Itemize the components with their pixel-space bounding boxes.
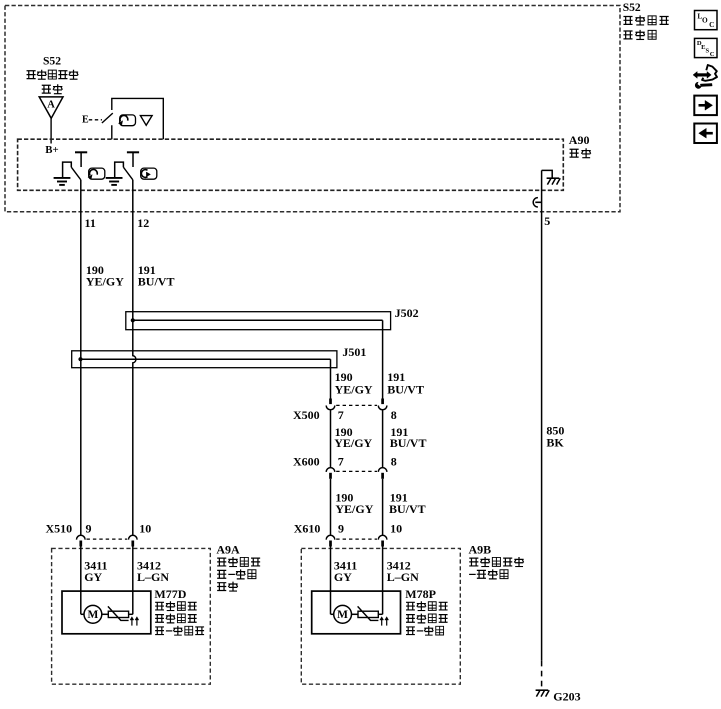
- svg-text:8: 8: [391, 408, 397, 422]
- A90 internal ground connection: [542, 170, 553, 178]
- svg-text:M: M: [87, 609, 98, 621]
- ground G203: [536, 689, 549, 691]
- svg-text:S52: S52: [43, 55, 61, 68]
- svg-text:C: C: [710, 51, 715, 58]
- svg-text:9: 9: [86, 522, 92, 536]
- A90 logic dashed box: [18, 139, 564, 190]
- svg-text:YE/GY: YE/GY: [334, 436, 372, 450]
- svg-text:5: 5: [544, 214, 550, 228]
- svg-text:O: O: [702, 16, 708, 25]
- A9B dashed component box: [301, 548, 460, 684]
- motor solid box: [312, 591, 401, 634]
- thermal arrows: [131, 620, 133, 626]
- svg-text:7: 7: [338, 408, 344, 422]
- navigation icon next arrow: [694, 96, 717, 116]
- svg-text:BU/VT: BU/VT: [389, 502, 426, 516]
- svg-text:10: 10: [139, 522, 151, 536]
- svg-text:X600: X600: [293, 454, 320, 468]
- switch contact T: [127, 151, 139, 153]
- wire 191 X600 to X610: [382, 479, 384, 536]
- svg-text:X500: X500: [293, 408, 320, 422]
- connector pin A triangle: [39, 97, 63, 118]
- connector X500 pin 8: [381, 399, 384, 405]
- svg-text:M77D: M77D: [154, 587, 186, 601]
- J502 internal bus wire: [133, 319, 383, 321]
- X510 dashed connector line: [87, 538, 128, 540]
- svg-text:12: 12: [137, 216, 149, 230]
- switch blade: [71, 167, 81, 180]
- svg-text:S52: S52: [623, 1, 641, 14]
- connector X510 pin 9: [77, 535, 86, 539]
- mirror-fold icon top: [120, 115, 136, 126]
- svg-text:A9B: A9B: [469, 543, 492, 557]
- svg-text:BU/VT: BU/VT: [390, 436, 427, 450]
- wire from pin A into A90: [50, 118, 52, 143]
- open triangle indicator: [140, 116, 152, 126]
- ground symbol: [54, 177, 71, 179]
- mirror-fold icon right switch: [141, 168, 157, 179]
- svg-text:BU/VT: BU/VT: [138, 275, 175, 289]
- outer dashed box: S52 exterior mirror switch: [5, 6, 620, 212]
- svg-text:X610: X610: [294, 522, 321, 536]
- PTC thermistor: [108, 611, 128, 617]
- svg-text:GY: GY: [84, 570, 102, 584]
- svg-text:J501: J501: [342, 345, 366, 359]
- svg-text:X510: X510: [46, 522, 73, 536]
- switch contact T: [75, 151, 87, 153]
- wire 3412 into motor: [382, 547, 384, 615]
- svg-text:11: 11: [85, 216, 96, 230]
- svg-text:M: M: [337, 609, 348, 621]
- splice pack J502: [126, 312, 391, 330]
- switch sub-box with E input: [112, 98, 164, 139]
- motor wire links: [331, 613, 334, 615]
- svg-text:7: 7: [338, 454, 344, 468]
- wire 3411 into motor: [330, 547, 332, 615]
- connector X610 pin 10: [378, 535, 387, 539]
- svg-text:J502: J502: [395, 306, 419, 320]
- splice pack J501: [72, 351, 337, 368]
- wire 3411 into motor: [80, 547, 82, 615]
- svg-text:E: E: [82, 114, 89, 125]
- motor symbol circle M: [334, 605, 352, 623]
- J501 internal bus wire: [81, 358, 331, 360]
- connector X600 pin 8: [378, 468, 387, 472]
- wire 191 X500 to X600: [382, 410, 384, 468]
- svg-text:BK: BK: [546, 435, 564, 449]
- svg-text:GY: GY: [334, 570, 352, 584]
- wire 190 from J501 down to X500 pin 7: [330, 359, 332, 399]
- navigation icon DESC: [695, 38, 718, 57]
- svg-text:C: C: [709, 20, 714, 29]
- svg-text:A9A: A9A: [216, 543, 240, 557]
- svg-text:A: A: [47, 100, 55, 111]
- X600 dashed connector line: [336, 470, 377, 472]
- connector X610 pin 9: [326, 535, 335, 539]
- motor wire links: [81, 613, 84, 615]
- svg-text:A90: A90: [569, 133, 590, 147]
- wire 850 from A90 ground down: [541, 170, 543, 660]
- junction dot J501 on wire 11: [78, 357, 82, 361]
- navigation icon quick-repair arrows with wrench: [696, 73, 708, 76]
- ground symbol: [106, 177, 123, 179]
- connector X600 pin 7: [326, 468, 335, 472]
- wire 190 X500 to X600: [330, 410, 332, 468]
- svg-text:9: 9: [338, 522, 344, 536]
- svg-text:YE/GY: YE/GY: [335, 383, 373, 397]
- wire 12 from passenger switch down (with hop at J501): [133, 180, 136, 536]
- svg-text:L–GN: L–GN: [387, 570, 419, 584]
- A9A dashed component box: [52, 548, 211, 684]
- connector X500 pin 7: [329, 399, 332, 405]
- svg-text:BU/VT: BU/VT: [387, 383, 424, 397]
- wire 11 from driver switch down to X510 pin 9: [80, 180, 82, 536]
- navigation icon LOC: [695, 11, 718, 30]
- connector X510 pin 10: [129, 535, 138, 539]
- wire 850 dashed section: [541, 661, 543, 687]
- chassis ground symbol A90: [547, 177, 560, 179]
- X500 dashed connector line: [336, 404, 377, 406]
- junction dot J502 on wire 12: [131, 318, 135, 322]
- switch ground contact step: [63, 162, 72, 178]
- motor symbol circle M: [84, 605, 102, 623]
- switch blade: [123, 167, 132, 180]
- svg-text:B+: B+: [45, 144, 58, 156]
- wire 190 X600 to X610: [330, 479, 332, 536]
- svg-text:L–GN: L–GN: [137, 570, 169, 584]
- PTC thermistor: [358, 611, 378, 617]
- inline connector on wire 850 at S52 harness exit: [535, 201, 541, 203]
- mirror-fold icon left switch: [89, 168, 105, 179]
- wire 3412 into motor: [132, 547, 134, 615]
- motor solid box: [62, 591, 151, 634]
- switch blade E: [102, 113, 113, 123]
- svg-text:G203: G203: [553, 690, 580, 704]
- thermal arrows: [381, 620, 383, 626]
- wire 191 from J502 down to X500 pin 8: [382, 320, 384, 399]
- svg-text:YE/GY: YE/GY: [335, 502, 373, 516]
- svg-text:8: 8: [391, 454, 397, 468]
- svg-text:10: 10: [390, 522, 402, 536]
- switch ground contact step: [115, 162, 124, 178]
- X610 dashed connector line: [336, 538, 377, 540]
- svg-text:YE/GY: YE/GY: [86, 275, 124, 289]
- svg-text:M78P: M78P: [405, 587, 436, 601]
- navigation icon back arrow: [694, 124, 717, 144]
